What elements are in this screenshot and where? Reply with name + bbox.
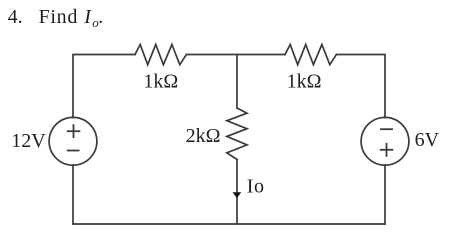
svg-text:2kΩ: 2kΩ	[186, 125, 221, 147]
voltage source V1 circle (12V)	[49, 117, 97, 165]
V2 plus sign	[381, 144, 393, 156]
wire left-bottom (V1 to bottom rail)	[72, 165, 74, 224]
wire middle-bottom (R3 to bottom rail through Io arrow)	[236, 159, 238, 224]
wire bottom rail	[73, 223, 385, 225]
wire top-right (R2 to right branch down to V2)	[336, 55, 385, 118]
wire right-bottom (V2 to bottom rail)	[384, 165, 386, 224]
svg-text:Find: Find	[39, 6, 78, 28]
V2 minus sign	[381, 128, 392, 130]
V1 minus sign	[68, 150, 79, 152]
wire top-left (left vertical + top segment to R1)	[73, 55, 135, 118]
svg-text:12V: 12V	[11, 130, 46, 152]
svg-text:Io: Io	[247, 176, 265, 198]
resistor R2 zigzag	[285, 45, 336, 65]
svg-text:6V: 6V	[415, 129, 440, 151]
svg-text:I: I	[83, 6, 92, 28]
svg-text:1kΩ: 1kΩ	[287, 71, 322, 93]
svg-text:4.: 4.	[8, 6, 23, 28]
voltage source V2 circle (6V)	[361, 117, 409, 165]
wire middle-top (node to R3)	[236, 55, 238, 109]
wire top-middle (R1 to R2, through node at x=237)	[186, 54, 285, 56]
resistor R3 zigzag (vertical 2k)	[227, 108, 247, 159]
svg-text:1kΩ: 1kΩ	[143, 71, 178, 93]
svg-text:.: .	[98, 6, 103, 28]
V1 plus sign	[68, 125, 80, 137]
arrow Io (current direction)	[233, 192, 242, 198]
resistor R1 zigzag	[135, 45, 186, 65]
